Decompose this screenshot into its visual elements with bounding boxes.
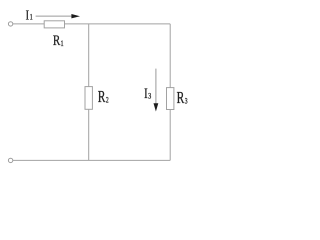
current arrow I1 (shaft) <box>36 15 73 17</box>
current arrow I1 (head) <box>71 14 80 18</box>
resistor R3 (vertical box) <box>167 88 174 110</box>
svg-text:I: I <box>26 7 29 23</box>
wire: right branch upper segment <box>169 24 171 88</box>
label I3 <box>144 85 151 101</box>
svg-text:2: 2 <box>106 97 109 105</box>
wire: R1 to right corner <box>65 23 171 25</box>
wire: middle branch upper segment <box>88 24 90 87</box>
svg-text:R: R <box>98 88 106 107</box>
svg-text:3: 3 <box>185 98 188 106</box>
terminal T1 (top-left open circle) <box>8 22 12 26</box>
wire: middle branch lower segment <box>88 109 90 160</box>
resistor R1 (horizontal box) <box>44 21 64 28</box>
svg-text:1: 1 <box>61 38 64 48</box>
label R3 <box>177 89 188 108</box>
svg-text:3: 3 <box>148 90 151 100</box>
current arrow I3 (shaft) <box>155 69 157 104</box>
svg-text:R: R <box>53 31 61 48</box>
terminal T2 (bottom-left open circle) <box>8 158 12 162</box>
label I1 <box>26 7 33 23</box>
wire: right branch lower segment <box>169 110 171 161</box>
wire: bottom return wire <box>13 159 170 161</box>
label R2 <box>98 88 109 107</box>
svg-text:1: 1 <box>30 12 33 22</box>
svg-text:I: I <box>144 85 148 101</box>
label R1 <box>53 31 64 48</box>
current arrow I3 (head) <box>154 103 159 111</box>
wire: left terminal to R1 <box>13 23 44 25</box>
svg-text:R: R <box>177 89 185 108</box>
resistor R2 (vertical box) <box>85 87 92 110</box>
